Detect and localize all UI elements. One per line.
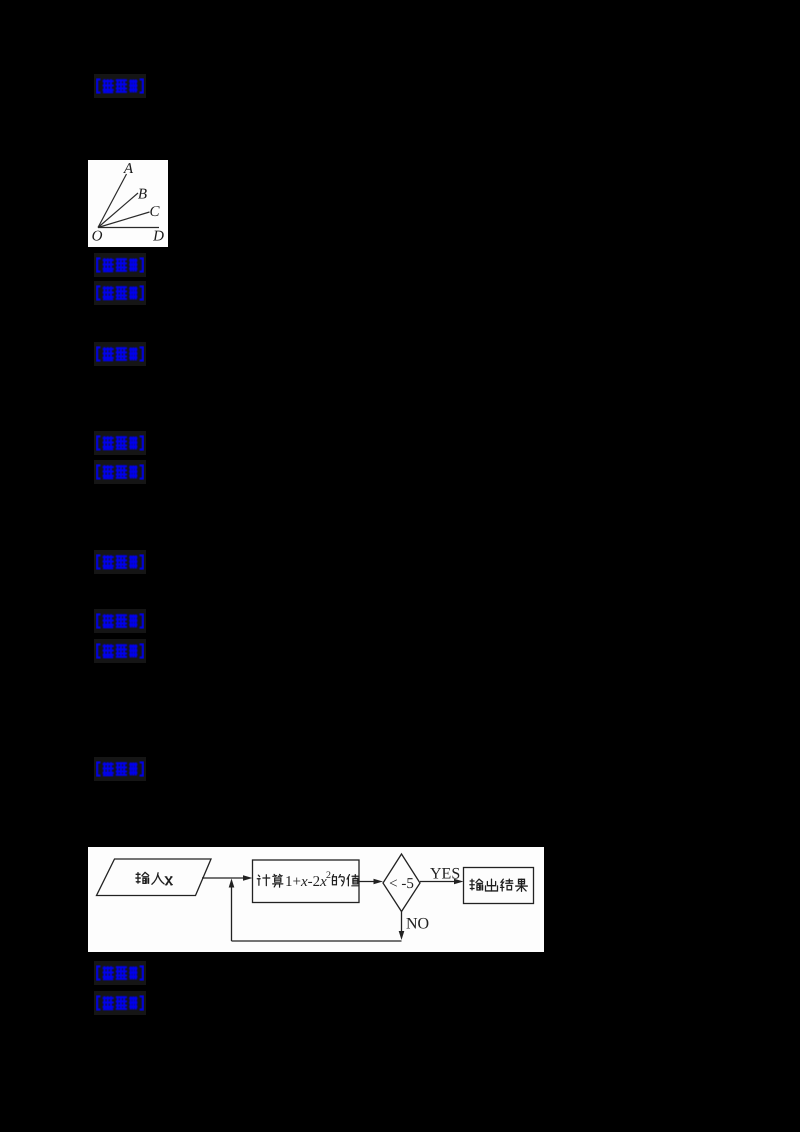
blue tag 考点	[94, 431, 146, 455]
wire: NO loop up	[231, 883, 233, 941]
svg-text:1+x-2x: 1+x-2x	[285, 874, 327, 890]
wire: decision to output (YES)	[420, 881, 458, 883]
blue tag 点评	[94, 757, 146, 781]
svg-text:< -5: < -5	[389, 876, 414, 892]
svg-text:B: B	[138, 187, 147, 203]
white panel: angle figure	[88, 160, 168, 247]
wire: parallelogram to process box	[202, 877, 247, 879]
process rectangle	[253, 860, 360, 903]
blue tag 考点	[94, 961, 146, 985]
ray OB	[98, 193, 138, 228]
wire: process to decision	[359, 881, 378, 883]
blue tag 专题	[94, 991, 146, 1015]
parallelogram: input	[97, 859, 212, 896]
blue tag 解答	[94, 342, 146, 366]
text: shu-chu jie-guo (output result)	[470, 879, 483, 890]
svg-text:YES: YES	[430, 866, 460, 883]
svg-text:C: C	[149, 204, 160, 220]
output rectangle	[464, 868, 534, 904]
blue tag 专题	[94, 281, 146, 305]
ray OA	[98, 174, 127, 228]
wire: NO loop bottom	[232, 940, 402, 942]
arrowhead into decision	[374, 879, 384, 885]
blue tag 分析	[94, 74, 146, 98]
decision diamond	[383, 854, 420, 912]
blue tag 分析	[94, 550, 146, 574]
svg-text:2: 2	[326, 870, 331, 881]
blue tag 专题	[94, 639, 146, 663]
arrowhead into output	[454, 879, 464, 885]
arrowhead into process	[243, 875, 253, 881]
text: shu-ru x (input x)	[136, 872, 149, 883]
svg-text:NO: NO	[406, 916, 429, 933]
wire: NO loop down	[401, 912, 403, 937]
blue tag 考点	[94, 253, 146, 277]
svg-text:O: O	[92, 229, 103, 245]
blue tag 考点	[94, 609, 146, 633]
text: ji-suan 1+x-2x^2 de zhi (compute value)	[257, 875, 270, 886]
arrowhead up at junction	[229, 879, 235, 888]
blue tag 专题	[94, 460, 146, 484]
svg-text:D: D	[152, 229, 164, 245]
ray OD	[98, 227, 159, 229]
white panel: flowchart	[88, 847, 544, 952]
ray OC	[98, 212, 150, 228]
arrowhead down NO	[399, 931, 405, 940]
svg-text:A: A	[123, 161, 134, 177]
